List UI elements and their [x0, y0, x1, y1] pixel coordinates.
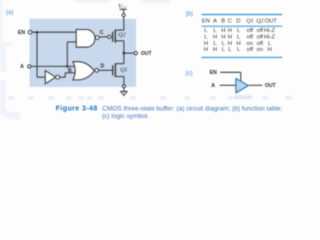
svg-text:OUT: OUT	[141, 51, 153, 57]
svg-text:L: L	[237, 28, 241, 34]
svg-text:A: A	[20, 64, 24, 70]
svg-text:(b): (b)	[186, 12, 193, 18]
svg-text:on: on	[247, 41, 254, 47]
svg-text:(a): (a)	[6, 10, 13, 16]
svg-text:L: L	[204, 35, 208, 41]
svg-text:L: L	[222, 41, 226, 47]
svg-text:B: B	[221, 19, 225, 25]
svg-text:H: H	[213, 47, 217, 53]
svg-text:off: off	[257, 35, 264, 41]
svg-text:B: B	[68, 68, 72, 74]
svg-text:A: A	[211, 83, 215, 89]
svg-text:L: L	[213, 28, 217, 34]
svg-text:Figure 3-48: Figure 3-48	[56, 105, 98, 112]
svg-text:(c): (c)	[186, 71, 193, 77]
svg-text:A: A	[213, 19, 217, 25]
svg-text:H: H	[228, 35, 232, 41]
svg-text:(c) logic symbol.: (c) logic symbol.	[102, 113, 149, 120]
svg-text:L: L	[213, 41, 217, 47]
svg-text:Q1: Q1	[246, 19, 253, 25]
svg-text:OUT: OUT	[265, 19, 278, 25]
svg-text:off: off	[247, 28, 254, 34]
svg-text:H: H	[228, 41, 232, 47]
svg-text:Q2: Q2	[118, 33, 125, 39]
svg-text:L: L	[268, 41, 272, 47]
svg-text:L: L	[222, 47, 226, 53]
svg-text:H: H	[267, 47, 271, 53]
svg-text:off: off	[257, 28, 264, 34]
svg-text:OUT: OUT	[265, 83, 277, 89]
svg-text:off: off	[257, 41, 264, 47]
svg-text:H: H	[221, 28, 225, 34]
svg-text:Hi-Z: Hi-Z	[264, 35, 276, 41]
svg-text:CMOS three-state buffer: (a) c: CMOS three-state buffer: (a) circuit dia…	[102, 105, 282, 112]
svg-text:D: D	[101, 64, 105, 70]
svg-text:off: off	[247, 47, 254, 53]
svg-text:EN: EN	[202, 19, 210, 25]
svg-text:H: H	[221, 35, 225, 41]
svg-text:Q1: Q1	[120, 68, 127, 74]
svg-text:Q2: Q2	[256, 19, 263, 25]
svg-text:C: C	[228, 19, 233, 25]
svg-text:on: on	[257, 47, 264, 53]
svg-text:H: H	[213, 35, 217, 41]
svg-text:H: H	[236, 41, 240, 47]
svg-text:L: L	[237, 47, 241, 53]
svg-text:EN: EN	[210, 70, 217, 76]
svg-text:off: off	[247, 35, 254, 41]
svg-text:Hi-Z: Hi-Z	[264, 28, 276, 34]
svg-text:L: L	[237, 35, 241, 41]
svg-text:H: H	[228, 28, 232, 34]
svg-text:EN: EN	[18, 30, 25, 36]
svg-text:C: C	[100, 30, 104, 36]
svg-text:L: L	[228, 47, 232, 53]
svg-text:H: H	[204, 47, 208, 53]
svg-text:H: H	[204, 41, 208, 47]
svg-text:D: D	[236, 19, 240, 25]
svg-text:L: L	[204, 28, 208, 34]
svg-text:CC: CC	[122, 6, 128, 11]
